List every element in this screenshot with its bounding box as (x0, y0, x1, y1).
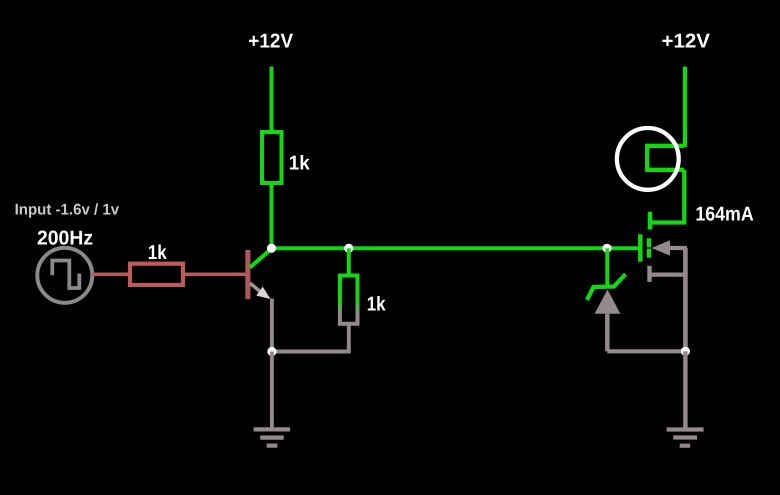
node collector junction (267, 244, 276, 253)
wire node to R3 (347, 248, 351, 276)
wire +12V to lamp (683, 67, 687, 148)
ground left (254, 429, 291, 445)
svg-text:+12V: +12V (248, 30, 293, 52)
wire gate lead (607, 246, 638, 250)
lamp L1 (617, 128, 685, 190)
node emitter junction (267, 347, 276, 356)
wire Q1 emitter down (270, 299, 274, 352)
svg-text:164mA: 164mA (695, 204, 753, 226)
wire R2 to collector node (270, 184, 274, 248)
voltage source VS1 square-wave input (37, 248, 92, 303)
svg-text:1k: 1k (289, 153, 311, 175)
svg-text:Input -1.6v / 1v: Input -1.6v / 1v (15, 202, 120, 219)
node gate zener junction (602, 244, 611, 253)
svg-text:1k: 1k (148, 242, 168, 264)
wire R3 to emitter node (272, 325, 349, 352)
resistor R3 1k (340, 276, 358, 324)
mosfet M1 p-channel (640, 212, 687, 282)
svg-text:+12V: +12V (662, 30, 711, 52)
bus wire collector node to gate node (272, 246, 608, 250)
wire node to ground right (683, 351, 687, 429)
wire R1 to Q1 base (183, 272, 246, 276)
wire lamp to M1 drain (650, 170, 684, 223)
wire emitter node to ground (270, 352, 274, 430)
ground right (667, 430, 704, 446)
node bus to R3 (344, 244, 353, 253)
wire VS1 to R1 (92, 272, 129, 276)
node source bulk junction (681, 347, 690, 356)
resistor R2 1k collector load (262, 132, 282, 183)
wire zener to source node (607, 349, 685, 353)
svg-text:1k: 1k (367, 293, 387, 315)
resistor R1 1k input (130, 264, 183, 285)
transistor Q1 NPN (245, 249, 271, 299)
zener diode D1 (587, 248, 626, 351)
wire +12V to R2 (270, 67, 274, 134)
wire M1 source and bulk down (683, 248, 688, 351)
